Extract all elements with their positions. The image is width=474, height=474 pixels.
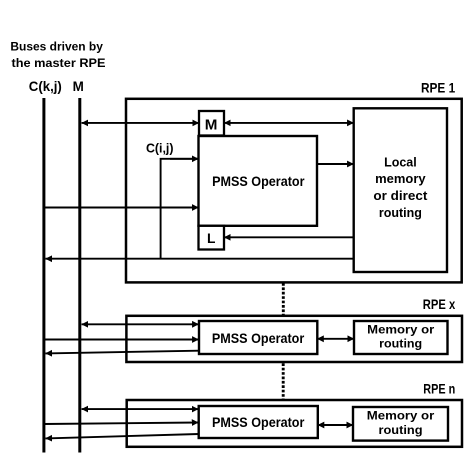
svg-text:memory: memory xyxy=(375,172,426,186)
box RPE n xyxy=(127,400,462,447)
box Memory or routing (RPE x) xyxy=(354,321,448,354)
box RPE x xyxy=(126,316,462,362)
svg-text:C(k,j): C(k,j) xyxy=(29,79,62,94)
box PMSS Operator (RPE n) xyxy=(199,406,318,438)
dotted separator RPE1 / RPE x xyxy=(282,283,285,315)
wire PMSS to Memory (RPE x, double arrow) xyxy=(317,338,354,340)
svg-text:RPE 1: RPE 1 xyxy=(421,80,455,96)
box RPE 1 xyxy=(126,99,462,283)
box Local memory or direct routing xyxy=(354,108,447,272)
wire local memory to L-box xyxy=(224,236,353,238)
wire M-bus to PMSS (RPE n, double arrow) xyxy=(82,408,199,410)
wire M-bus to PMSS (RPE x, double arrow) xyxy=(82,323,199,325)
svg-text:Local: Local xyxy=(384,155,417,169)
wire local memory output to C-bus xyxy=(46,258,354,260)
svg-text:routing: routing xyxy=(379,206,422,220)
wire C-bus input to PMSS xyxy=(44,207,199,209)
bus C(k,j) xyxy=(42,98,45,453)
wire C(i,j) arrow into PMSS xyxy=(170,158,198,160)
wire C-bus input to PMSS (RPE n) xyxy=(44,423,198,425)
wire M-bus to M-box (double arrow) xyxy=(82,122,199,124)
svg-text:PMSS Operator: PMSS Operator xyxy=(212,174,305,189)
svg-text:PMSS Operator: PMSS Operator xyxy=(212,415,305,430)
caption: Buses driven by the master RPE xyxy=(10,39,105,70)
box PMSS Operator (RPE 1) xyxy=(199,136,318,226)
svg-text:PMSS Operator: PMSS Operator xyxy=(212,331,305,346)
bus M xyxy=(78,98,81,453)
svg-text:routing: routing xyxy=(379,337,422,351)
wire PMSS to Memory (RPE n, double arrow) xyxy=(318,424,353,426)
wire PMSS output to C-bus (RPE n) xyxy=(46,434,199,438)
svg-text:the master RPE: the master RPE xyxy=(12,56,106,70)
box L xyxy=(199,226,225,250)
wire C-bus input to PMSS (RPE x) xyxy=(44,339,199,341)
svg-text:C(i,j): C(i,j) xyxy=(146,140,174,155)
svg-text:Buses driven by: Buses driven by xyxy=(10,39,103,53)
svg-text:L: L xyxy=(207,231,215,246)
wire PMSS output to C-bus (RPE x) xyxy=(46,351,200,354)
box Memory or routing (RPE n) xyxy=(353,407,448,441)
svg-text:M: M xyxy=(205,116,218,133)
svg-text:or direct: or direct xyxy=(373,189,428,203)
svg-text:routing: routing xyxy=(379,423,423,437)
svg-text:M: M xyxy=(73,79,84,94)
wire C(i,j) vertical xyxy=(161,159,199,259)
svg-text:Memory or: Memory or xyxy=(367,409,435,423)
wire PMSS to local memory xyxy=(317,163,354,165)
dotted separator RPE x / RPE n xyxy=(282,363,285,399)
box PMSS Operator (RPE x) xyxy=(199,321,317,354)
box M xyxy=(199,111,224,136)
wire M-box to local memory (double arrow) xyxy=(224,122,353,124)
svg-text:Memory or: Memory or xyxy=(367,322,434,336)
svg-text:RPE x: RPE x xyxy=(423,296,456,312)
svg-text:RPE n: RPE n xyxy=(423,381,455,397)
